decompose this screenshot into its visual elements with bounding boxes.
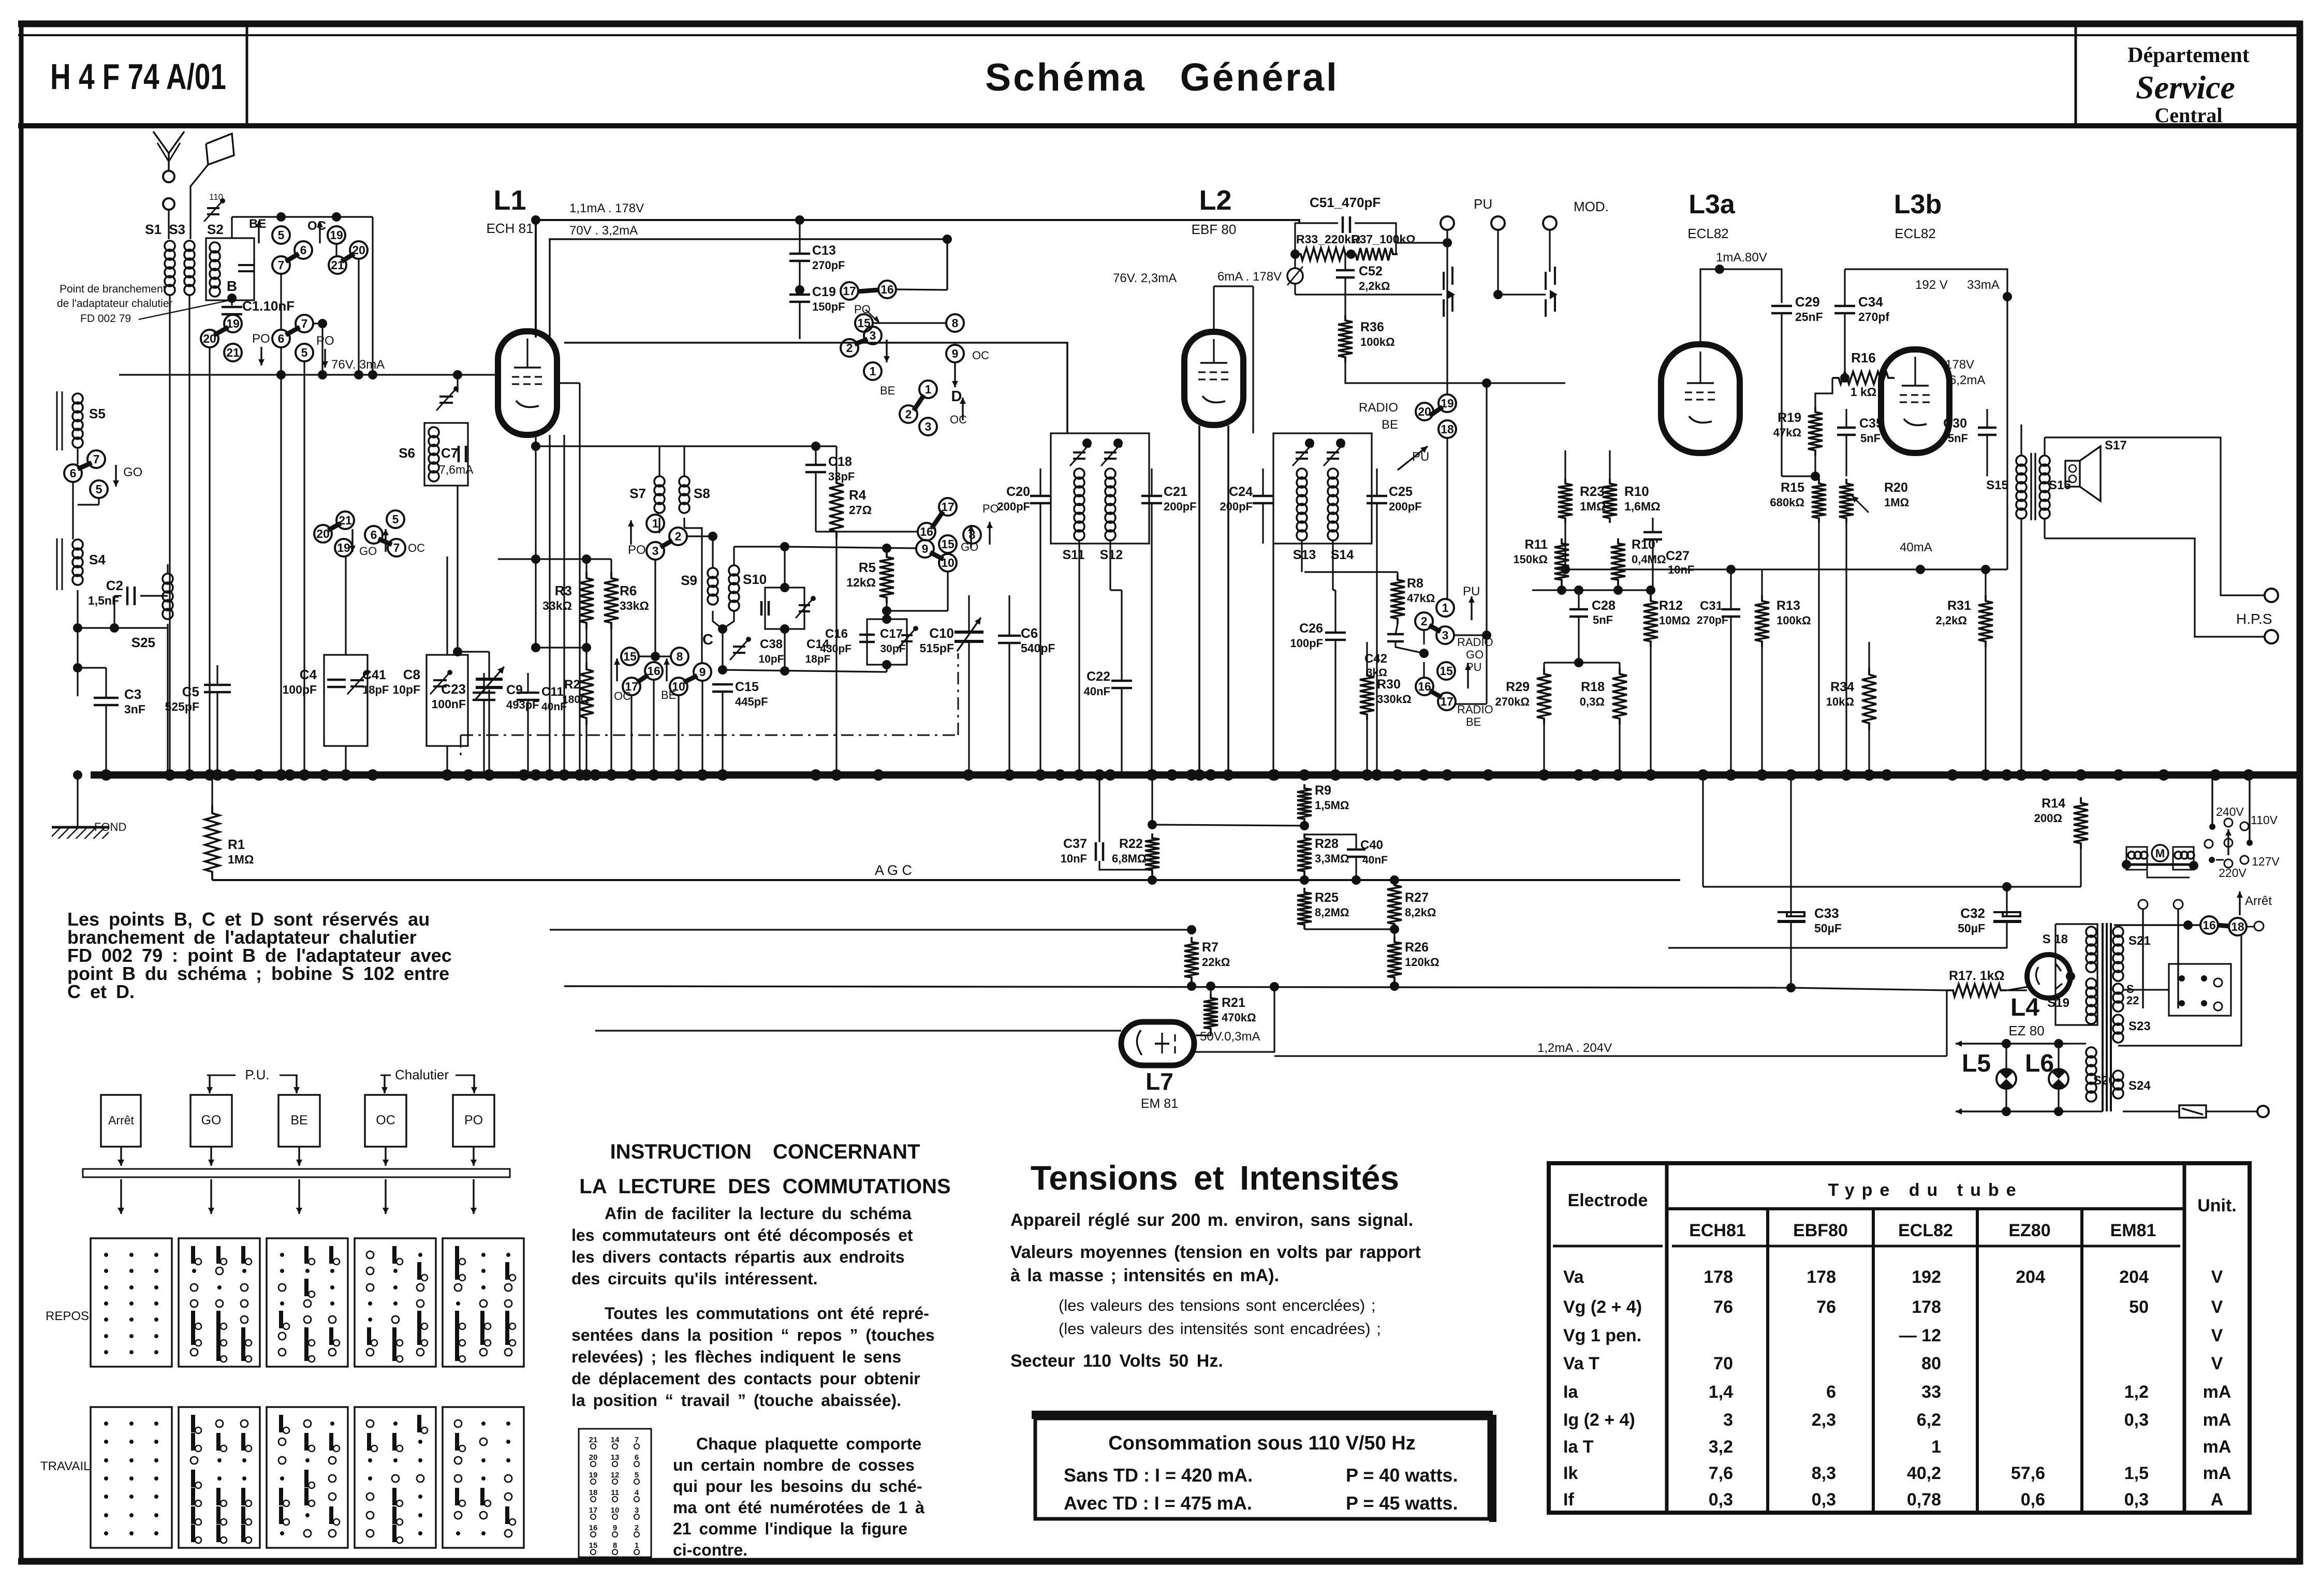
svg-text:6,2: 6,2: [1917, 1410, 1941, 1430]
wire R36 down: [1345, 362, 1565, 383]
wire C16 box bottom: [886, 665, 887, 672]
svg-text:40,2: 40,2: [1907, 1463, 1941, 1483]
capacitor C8 box: [427, 655, 468, 746]
svg-text:EZ80: EZ80: [2008, 1221, 2050, 1240]
svg-text:EBF 80: EBF 80: [1192, 222, 1237, 237]
contact 6a: [295, 241, 312, 259]
table rule type du tube: [1667, 1207, 2184, 1210]
tank S6 C7 box: [424, 423, 468, 486]
svg-text:27Ω: 27Ω: [849, 503, 872, 517]
resistor R13: [1755, 595, 1769, 647]
trimmer C8: [433, 679, 447, 681]
svg-text:M: M: [2155, 847, 2165, 860]
contact 15k: [939, 535, 957, 553]
capacitor C38: [760, 601, 763, 616]
coil S13: [1297, 468, 1307, 479]
svg-text:6: 6: [371, 528, 377, 541]
resistor R19: [1808, 407, 1823, 456]
svg-text:C3: C3: [124, 686, 141, 702]
contact 15e: [621, 648, 639, 665]
variable capacitor C10: [955, 631, 983, 634]
switch blade 7-6a: [286, 254, 299, 261]
svg-text:OC: OC: [950, 413, 967, 426]
svg-text:16: 16: [1418, 680, 1431, 693]
core lines S4: [56, 538, 58, 590]
svg-text:(les valeurs des intensités so: (les valeurs des intensités sont encadré…: [1059, 1320, 1381, 1338]
svg-text:Afin de faciliter la lectu: Afin de faciliter la lecture du schéma: [605, 1204, 912, 1223]
svg-text:1: 1: [1931, 1437, 1941, 1457]
wire heater rail: [1791, 988, 1947, 990]
contact 6b: [272, 330, 290, 347]
coil S11: [1074, 468, 1084, 479]
svg-text:22kΩ: 22kΩ: [1202, 956, 1230, 969]
svg-text:GO: GO: [961, 540, 978, 553]
svg-text:H.P.S: H.P.S: [2236, 611, 2272, 627]
svg-text:7: 7: [93, 452, 100, 466]
resistor R21: [1203, 994, 1218, 1033]
svg-text:5: 5: [96, 482, 102, 496]
key bar: [83, 1169, 510, 1177]
svg-text:33mA: 33mA: [1967, 278, 2000, 292]
key arrow PO: [473, 1147, 474, 1166]
svg-text:Arrêt: Arrêt: [2245, 894, 2272, 908]
svg-text:BE: BE: [880, 384, 895, 397]
switch blade 16-17m: [1430, 691, 1442, 697]
contact 17e: [623, 678, 640, 695]
svg-text:ECL82: ECL82: [1898, 1221, 1953, 1240]
wire rail70 17h: [947, 290, 948, 291]
svg-text:18: 18: [589, 1488, 598, 1497]
svg-text:6: 6: [70, 466, 77, 480]
svg-text:33pF: 33pF: [828, 470, 855, 483]
svg-text:R30: R30: [1377, 677, 1401, 692]
svg-text:2: 2: [635, 1524, 639, 1532]
svg-text:0,3Ω: 0,3Ω: [1580, 695, 1605, 708]
svg-text:204: 204: [2016, 1267, 2045, 1287]
wire R30 top: [1367, 670, 1368, 671]
svg-text:127V: 127V: [2252, 855, 2280, 868]
jack PU: [1443, 272, 1445, 290]
wire left col: [77, 448, 78, 464]
svg-text:ECH 81: ECH 81: [486, 221, 533, 236]
svg-text:5: 5: [392, 513, 399, 526]
svg-text:C23: C23: [441, 681, 466, 697]
svg-text:220V: 220V: [2219, 866, 2246, 880]
resistor R9: [1297, 784, 1312, 823]
svg-text:P.U.: P.U.: [245, 1067, 269, 1082]
svg-text:S2: S2: [207, 222, 224, 237]
svg-text:L3b: L3b: [1894, 189, 1942, 219]
svg-text:sentées dans la position “ re: sentées dans la position “ repos ” (touc…: [571, 1326, 935, 1344]
svg-text:16: 16: [2202, 918, 2216, 932]
svg-text:330kΩ: 330kΩ: [1377, 693, 1412, 706]
coil S2 box: [206, 238, 254, 300]
lamp L5: [1996, 1069, 2016, 1089]
wire 2m col: [1423, 630, 1425, 645]
svg-text:47kΩ: 47kΩ: [1407, 592, 1435, 605]
switch blade 20-19b: [214, 327, 228, 335]
svg-text:5nF: 5nF: [1593, 613, 1613, 626]
capacitor C30: [1978, 427, 1996, 429]
svg-text:Central: Central: [2154, 104, 2222, 127]
wire 862 line: [536, 445, 836, 447]
svg-text:PU: PU: [1463, 584, 1480, 598]
contact 3j: [919, 418, 937, 435]
node B: [227, 294, 237, 303]
svg-text:200pF: 200pF: [1164, 500, 1197, 513]
svg-text:C19: C19: [812, 285, 836, 299]
switch blade 2-1j: [914, 395, 924, 411]
svg-text:PO: PO: [316, 334, 334, 348]
svg-text:OC: OC: [376, 1113, 395, 1128]
trimmer S11: [1073, 451, 1085, 453]
capacitor C2: [126, 587, 129, 605]
coil S22: [2113, 984, 2123, 994]
tube L7 EM81: [1121, 1022, 1194, 1065]
contact 6c: [64, 464, 82, 482]
svg-text:BE: BE: [1466, 715, 1481, 728]
svg-text:Service: Service: [2136, 69, 2235, 106]
svg-text:100kΩ: 100kΩ: [1360, 335, 1395, 348]
svg-text:70: 70: [1713, 1354, 1733, 1373]
svg-text:Point de branchement: Point de branchement: [60, 283, 166, 295]
contact 20b: [201, 330, 218, 347]
wire C4 box: [345, 557, 346, 655]
svg-text:9: 9: [922, 542, 929, 555]
bus junction dots: [100, 769, 112, 781]
svg-text:3: 3: [925, 420, 932, 433]
contact 7a: [272, 256, 290, 274]
wire L2 anode: [1213, 286, 1214, 332]
voltage selector: [2224, 818, 2233, 827]
trimmer S6 top: [439, 396, 453, 398]
plate repos 2: [179, 1238, 260, 1367]
wire C18 16k: [816, 531, 918, 532]
contact 1m: [1436, 599, 1454, 617]
svg-text:18pF: 18pF: [362, 683, 389, 696]
svg-text:10pF: 10pF: [392, 683, 420, 696]
svg-text:des circuits qu'ils intéres: des circuits qu'ils intéressent.: [571, 1269, 818, 1288]
capacitor C19: [789, 294, 810, 296]
terminal HPS 1: [2265, 589, 2278, 602]
header divider left: [246, 27, 248, 124]
resistor R11: [1554, 538, 1569, 585]
svg-text:R2: R2: [564, 678, 580, 692]
svg-text:C26: C26: [1299, 621, 1323, 636]
capacitor C16 C17 box: [867, 619, 907, 665]
svg-text:Ik: Ik: [1563, 1463, 1578, 1483]
coil S3: [184, 241, 195, 251]
wire 569 rail: [1295, 294, 1442, 295]
svg-text:ECL82: ECL82: [1895, 226, 1936, 241]
trimmer C14: [799, 604, 810, 606]
resistor R10: [1603, 479, 1617, 523]
svg-text:33kΩ: 33kΩ: [542, 599, 572, 612]
svg-text:R6: R6: [620, 583, 637, 598]
svg-text:C31: C31: [1700, 599, 1723, 613]
contact 1i: [864, 362, 882, 380]
resistor R30: [1360, 670, 1374, 720]
svg-text:200Ω: 200Ω: [2034, 812, 2062, 825]
svg-text:17: 17: [1440, 695, 1453, 708]
plate repos 3: [267, 1238, 348, 1367]
svg-text:R16: R16: [1851, 350, 1876, 365]
coil S23: [2113, 1015, 2123, 1025]
resistor R10b: [1611, 538, 1625, 585]
resistor R34: [1862, 668, 1876, 730]
svg-text:S5: S5: [89, 406, 106, 421]
svg-text:R8: R8: [1407, 576, 1423, 591]
svg-text:R28: R28: [1315, 837, 1339, 851]
svg-text:10pF: 10pF: [758, 653, 784, 665]
svg-text:0,78: 0,78: [1907, 1490, 1941, 1510]
svg-text:3: 3: [1442, 628, 1449, 642]
svg-text:2,3: 2,3: [1812, 1410, 1836, 1430]
contact 3f: [647, 542, 664, 560]
wire contact cols: [209, 347, 210, 775]
svg-text:Chalutier: Chalutier: [395, 1067, 449, 1082]
consommation box: [1035, 1418, 1489, 1519]
svg-text:PO: PO: [628, 543, 646, 557]
resistor R18: [1612, 668, 1627, 725]
key box Arrêt: [101, 1095, 141, 1147]
svg-text:20: 20: [1418, 405, 1431, 418]
capacitor C52: [1336, 269, 1355, 272]
terminal HPS 2: [2265, 630, 2278, 643]
svg-text:Appareil réglé sur 200 m. envi: Appareil réglé sur 200 m. environ, sans …: [1010, 1210, 1413, 1230]
svg-text:R23: R23: [1580, 484, 1605, 499]
contact 3m: [1436, 626, 1454, 644]
switch blade 9-10g: [930, 552, 943, 559]
svg-text:19: 19: [337, 541, 350, 554]
svg-text:17: 17: [843, 284, 856, 298]
svg-text:445pF: 445pF: [735, 695, 768, 708]
svg-text:les divers contacts réparti: les divers contacts répartis aux endroit…: [571, 1248, 905, 1266]
contact 21d: [336, 511, 354, 529]
svg-text:9: 9: [952, 347, 959, 360]
svg-text:relevées) ; les flèches ind: relevées) ; les flèches indiquent le sen…: [571, 1348, 901, 1366]
svg-text:A G C: A G C: [875, 862, 912, 878]
wire 1280 rail: [1544, 662, 1620, 663]
selector box: [2169, 964, 2231, 1016]
svg-text:Va T: Va T: [1563, 1354, 1599, 1373]
svg-text:V: V: [2211, 1326, 2223, 1345]
wire line 1905: [564, 986, 1791, 988]
svg-text:4: 4: [635, 1488, 639, 1497]
wire 15h: [873, 322, 946, 324]
key arrow below OC: [385, 1179, 386, 1214]
svg-text:1: 1: [925, 383, 932, 396]
svg-text:Ia: Ia: [1563, 1382, 1578, 1402]
svg-text:15: 15: [589, 1541, 598, 1550]
svg-text:S3: S3: [169, 222, 185, 237]
contact 19l: [1438, 394, 1456, 412]
svg-text:C33: C33: [1814, 905, 1839, 921]
coil S8: [679, 476, 689, 487]
contact 1f: [647, 515, 664, 532]
wire L4: [2008, 989, 2027, 991]
svg-text:1: 1: [1442, 601, 1449, 614]
wire 3m right: [1454, 634, 1487, 636]
svg-text:0,6: 0,6: [2021, 1490, 2045, 1510]
wire lamps top: [1956, 1043, 2065, 1044]
svg-text:C22: C22: [1086, 669, 1110, 684]
svg-text:200pF: 200pF: [997, 500, 1030, 513]
svg-text:ci-contre.: ci-contre.: [673, 1541, 747, 1559]
svg-text:Valeurs moyennes (tension en v: Valeurs moyennes (tension en volts par r…: [1010, 1242, 1421, 1262]
IF can 2 box: [1273, 433, 1372, 544]
table divider x3415: [1766, 1209, 1769, 1513]
resistor R33: [1295, 248, 1351, 260]
svg-text:L3a: L3a: [1688, 189, 1736, 219]
svg-text:ma ont été numérotées de: ma ont été numérotées de 1 à: [673, 1498, 924, 1517]
svg-text:C: C: [702, 632, 713, 648]
tube L2 EBF80: [1184, 332, 1243, 425]
svg-text:3,3MΩ: 3,3MΩ: [1315, 852, 1349, 865]
svg-text:C40: C40: [1360, 838, 1383, 852]
coil S7: [654, 476, 665, 487]
svg-text:19: 19: [589, 1471, 598, 1480]
svg-text:C52: C52: [1359, 264, 1383, 279]
svg-text:120kΩ: 120kΩ: [1405, 956, 1440, 969]
svg-text:1MΩ: 1MΩ: [1884, 496, 1909, 509]
svg-text:8: 8: [677, 650, 683, 663]
svg-text:12: 12: [611, 1471, 620, 1480]
wire lamps bottom: [1956, 1110, 2065, 1112]
contact 10e: [670, 678, 687, 695]
resistor R37: [1351, 248, 1398, 260]
switch blade 17-16h: [858, 290, 878, 291]
svg-text:6: 6: [300, 243, 307, 257]
wire antenna down: [168, 210, 169, 239]
C51 box wires: [1295, 223, 1338, 254]
svg-text:GO: GO: [359, 545, 377, 558]
ground bus: [91, 771, 2300, 779]
svg-text:1,5MΩ: 1,5MΩ: [1315, 799, 1349, 812]
svg-text:Département: Département: [2127, 43, 2250, 67]
coil S9: [708, 568, 718, 578]
svg-text:5nF: 5nF: [1948, 432, 1968, 445]
switch blade 2-3i: [855, 339, 868, 344]
contact 20a: [350, 241, 368, 259]
svg-text:178V: 178V: [1945, 358, 1974, 372]
svg-text:18pF: 18pF: [805, 653, 830, 665]
svg-text:10nF: 10nF: [1061, 852, 1087, 865]
svg-text:20: 20: [589, 1453, 598, 1462]
svg-text:R5: R5: [859, 560, 876, 575]
svg-text:ECH81: ECH81: [1689, 1221, 1746, 1240]
svg-text:8: 8: [613, 1541, 617, 1550]
rail 70V: [550, 239, 947, 338]
svg-text:EM81: EM81: [2110, 1221, 2156, 1240]
svg-text:3,2: 3,2: [1709, 1437, 1733, 1457]
svg-text:Vg (2 + 4): Vg (2 + 4): [1563, 1297, 1642, 1317]
svg-text:192 V: 192 V: [1915, 278, 1948, 292]
switch blade 20-19l: [1430, 407, 1443, 416]
wire 192V corner: [1895, 297, 1916, 316]
svg-text:1 kΩ: 1 kΩ: [1851, 385, 1876, 399]
svg-text:V: V: [2211, 1267, 2223, 1287]
svg-text:C2: C2: [106, 578, 123, 593]
svg-text:C38: C38: [760, 637, 783, 651]
speaker S17: [2065, 461, 2080, 487]
capacitor C25: [1367, 495, 1387, 497]
svg-text:33kΩ: 33kΩ: [620, 599, 649, 612]
resistor R31: [1978, 595, 1993, 647]
svg-text:C35: C35: [1859, 416, 1883, 431]
svg-text:9: 9: [699, 665, 706, 679]
svg-text:R3: R3: [555, 583, 572, 598]
capacitor C3: [94, 697, 119, 699]
capacitor C33: [1790, 775, 1792, 916]
svg-text:R10: R10: [1624, 484, 1649, 499]
svg-text:76V. 3mA: 76V. 3mA: [331, 358, 385, 372]
svg-text:0,3: 0,3: [2124, 1410, 2149, 1430]
wire 15-8: [639, 655, 671, 657]
svg-text:3: 3: [870, 329, 876, 342]
wire L7 left: [595, 1030, 1121, 1031]
wire 1m col: [1445, 598, 1446, 599]
svg-text:21: 21: [589, 1436, 598, 1444]
contact 17h: [841, 282, 858, 300]
svg-text:MOD.: MOD.: [1574, 199, 1609, 214]
svg-text:mA: mA: [2203, 1382, 2231, 1402]
tube L1 ECH81: [498, 331, 557, 435]
svg-text:C10: C10: [929, 625, 954, 641]
svg-text:1mA.80V: 1mA.80V: [1716, 251, 1767, 265]
key arrow OC: [385, 1147, 386, 1166]
capacitor C35: [1837, 427, 1856, 429]
thermistor: [1287, 268, 1303, 284]
svg-text:TRAVAIL: TRAVAIL: [40, 1459, 90, 1473]
resistor R28: [1297, 833, 1312, 876]
svg-text:S25: S25: [131, 635, 155, 650]
svg-text:Vg 1 pen.: Vg 1 pen.: [1563, 1326, 1641, 1345]
svg-text:100pF: 100pF: [1290, 637, 1323, 650]
svg-text:Secteur 110 Volts 50 Hz.: Secteur 110 Volts 50 Hz.: [1010, 1351, 1223, 1371]
svg-text:17: 17: [589, 1506, 598, 1515]
svg-text:6,8MΩ: 6,8MΩ: [1112, 852, 1147, 865]
svg-text:16: 16: [589, 1524, 598, 1532]
wire R19 bottom: [1814, 456, 1816, 476]
svg-text:FOND: FOND: [94, 821, 126, 833]
svg-text:BE: BE: [290, 1113, 307, 1128]
contact 7d: [388, 539, 405, 557]
svg-text:110V: 110V: [2251, 813, 2278, 827]
svg-text:25nF: 25nF: [1795, 310, 1823, 324]
wire line 1294: [723, 670, 887, 672]
svg-text:21: 21: [226, 346, 240, 359]
svg-text:Toutes les commutations ont: Toutes les commutations ont été repré-: [605, 1304, 929, 1323]
capacitor C22: [1111, 680, 1132, 682]
contact 8h: [946, 314, 964, 332]
svg-text:R13: R13: [1776, 598, 1800, 613]
contact 21a: [329, 256, 346, 274]
wire L2 bottom cols: [1198, 426, 1200, 775]
wire 10g down: [947, 572, 948, 611]
wire 2f to S9: [687, 535, 713, 537]
wire node 1213: [78, 627, 168, 628]
tube L3b ECL82: [1881, 349, 1949, 453]
wire C3 up: [78, 667, 106, 668]
svg-text:7: 7: [393, 541, 400, 554]
wire L7 right: [1194, 987, 1274, 1052]
contact 1j: [919, 380, 937, 398]
svg-text:R21: R21: [1222, 995, 1245, 1010]
svg-text:R37_100kΩ: R37_100kΩ: [1351, 232, 1416, 246]
capacitor C5: [204, 684, 231, 686]
svg-text:Va: Va: [1563, 1267, 1584, 1287]
